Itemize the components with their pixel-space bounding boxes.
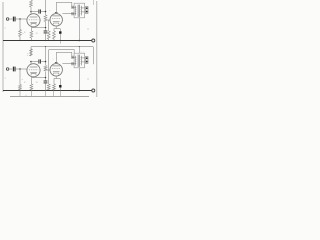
wire R4 to rail	[30, 38, 32, 41]
wire cathode tee lower	[54, 78, 61, 80]
wire input to C1	[9, 18, 13, 20]
wire V2 plate up	[55, 2, 57, 12]
transformer T1 case	[74, 3, 85, 18]
wire plate top run lower	[56, 51, 71, 53]
node B+ transformer junction	[79, 46, 80, 47]
wire plate to C2b	[31, 61, 38, 63]
resistor R6 cathode	[53, 31, 56, 39]
tube V1 envelope	[27, 14, 40, 27]
node cathode junction lower	[45, 77, 46, 78]
wire T2 secondary return	[78, 68, 80, 91]
capacitor C4 electrolytic	[59, 31, 61, 34]
tube V2 grid	[52, 17, 60, 19]
wire R5 to rail	[48, 39, 50, 41]
node rail2 J C3b	[45, 90, 46, 91]
wire C4b lead	[59, 79, 61, 85]
wire cathode bus lower	[31, 77, 45, 79]
node rail J C3	[45, 40, 46, 41]
svg-text:25: 25	[36, 82, 38, 84]
wire drop x53	[53, 91, 55, 97]
wire grid of V2	[46, 19, 50, 21]
node column junction lower	[45, 61, 47, 63]
tube V3 screen	[30, 71, 37, 73]
wire R1 to rail	[19, 37, 21, 41]
wire grid junction down lower	[19, 69, 21, 80]
wire B+ bus upper	[31, 47, 93, 65]
capacitor primary bottom marks b	[71, 62, 73, 65]
wire B+ corner	[30, 47, 32, 49]
wire stub below rail	[59, 41, 61, 44]
inductor T1 secondary	[80, 6, 83, 15]
tube V2 envelope	[50, 14, 62, 26]
wire ground rail lower	[3, 90, 92, 92]
wire V2 screen to primary	[62, 13, 76, 15]
wire V4 screen to primary	[62, 63, 76, 65]
inductor T2 primary	[74, 56, 77, 65]
wire B+ to T2 top	[78, 47, 80, 54]
node cathode junction	[45, 27, 46, 28]
resistor R6b cathode	[53, 84, 56, 90]
wire B+ bus lower	[49, 50, 74, 54]
node rail J R4	[31, 40, 32, 41]
wire C4b to rail	[59, 88, 61, 91]
node rail J R1	[19, 40, 20, 41]
wire drop x31	[30, 91, 32, 97]
tube V4 heater	[54, 73, 59, 74]
wire right border	[96, 1, 98, 97]
wire V3 cathode lead	[31, 76, 33, 79]
connector JK1 output	[86, 7, 89, 14]
node rail2 J R1b	[19, 90, 20, 91]
wire R3 to C3	[45, 22, 47, 31]
capacitor C2 coupling	[38, 9, 40, 13]
capacitor C3b bypass	[44, 80, 48, 82]
node output terminal b	[92, 89, 95, 92]
resistor R1 grid leak	[19, 30, 22, 37]
wire C3b to rail	[45, 83, 47, 90]
wire C1 to V1 grid	[16, 18, 28, 20]
wire column lower half	[45, 47, 47, 65]
capacitor C1b	[12, 67, 14, 72]
capacitor C2b coupling	[38, 59, 40, 63]
wire T1 secondary return	[78, 18, 80, 41]
wire R2 to plate	[30, 7, 32, 12]
wire secondary to jack top	[81, 7, 85, 9]
wire C1b to V3 grid	[16, 68, 28, 70]
wire R5 top	[48, 20, 50, 31]
transformer T2 case	[74, 53, 85, 68]
wire input to C1b	[9, 68, 13, 70]
wire V1 plate lead	[30, 12, 32, 15]
wire drop x60	[59, 91, 61, 97]
tube V2 heater	[54, 23, 59, 24]
node rail2 J R6b	[53, 90, 54, 91]
node J1 input terminal	[6, 18, 9, 21]
wire V2 cathode down	[55, 26, 57, 29]
tube V3 grid	[29, 69, 38, 71]
wire drop x20	[19, 91, 21, 97]
wire cathode bus	[31, 27, 45, 29]
node grid junction lower	[19, 68, 21, 70]
wire filament bus	[10, 96, 89, 98]
wire C2b to node	[41, 61, 45, 63]
node rail J C4	[60, 40, 61, 41]
wire drop x45	[45, 91, 47, 97]
tube V1 grid	[29, 19, 38, 21]
tube V4 envelope	[50, 64, 62, 76]
capacitor C4b electrolytic	[59, 85, 61, 88]
tube V1 screen	[30, 21, 37, 23]
tube V3 cathode	[31, 74, 36, 76]
wire V3 plate lead	[30, 62, 32, 65]
wire R6b lead	[53, 79, 55, 84]
wire cathode tee	[54, 28, 61, 30]
inductor T1 primary	[74, 6, 77, 15]
svg-text:25: 25	[36, 33, 38, 35]
wire C2 to node	[41, 11, 45, 13]
capacitor primary top marks b	[71, 56, 73, 59]
wire V4 plate up	[55, 52, 57, 62]
wire secondary to jack top b	[81, 57, 85, 59]
wire grid junction down	[19, 19, 21, 30]
tube V4 top cap	[55, 61, 58, 63]
capacitor primary top marks	[71, 6, 73, 9]
node grid junction	[19, 18, 21, 20]
wire secondary to jack bottom	[81, 11, 85, 13]
wire stub top right	[93, 0, 95, 5]
resistor R3	[44, 15, 47, 22]
node plate junction lower	[30, 61, 32, 63]
resistor R2b plate load lower	[30, 49, 33, 56]
wire plate top run	[56, 1, 71, 3]
capacitor C3 bypass	[44, 30, 48, 32]
wire R6 to rail	[53, 39, 55, 41]
resistor R3b	[44, 66, 47, 72]
node J2 input terminal	[6, 68, 9, 71]
wire V1 cathode lead	[31, 26, 33, 29]
resistor R1b grid leak	[19, 85, 22, 91]
wire V4 cathode down	[55, 76, 57, 79]
wire R4b top	[30, 78, 32, 84]
tube V4 cathode	[53, 70, 60, 72]
wire C3 to rail	[45, 33, 47, 40]
wire R5b column	[48, 50, 50, 84]
tube V1 plate	[30, 16, 38, 18]
resistor R5b	[47, 84, 50, 90]
node secondary rail junction b	[79, 90, 81, 92]
resistor R4b cathode	[30, 84, 33, 90]
node rail2 J R4b	[31, 90, 32, 91]
svg-text:c: c	[53, 58, 54, 60]
wire secondary to jack bottom b	[81, 61, 85, 63]
tube V2 top cap	[55, 11, 58, 13]
node secondary rail junction	[79, 40, 81, 42]
connector JK2 output	[86, 57, 89, 64]
node B+ column junction	[45, 46, 46, 47]
node output terminal	[92, 39, 95, 42]
wire column top	[45, 0, 47, 15]
wire R6 lead	[53, 29, 55, 31]
core T1	[77, 5, 79, 17]
wire plate drop lower	[71, 52, 73, 57]
capacitor C1	[12, 17, 14, 22]
tube V2 plate	[53, 15, 60, 17]
node plate junction	[30, 11, 32, 13]
resistor R2 plate load	[30, 0, 33, 7]
wire left border	[2, 2, 4, 92]
wire grid of V4	[46, 69, 50, 71]
tube V1 cathode	[31, 24, 36, 26]
wire R3b to C3b	[45, 72, 47, 81]
wire C4 to rail	[59, 34, 61, 41]
wire into primary	[72, 6, 76, 8]
tube V4 grid	[52, 67, 60, 69]
capacitor primary bottom marks	[71, 12, 73, 15]
wire plate drop	[71, 2, 73, 7]
tube V2 cathode	[53, 20, 60, 22]
wire into primary lower	[72, 56, 76, 58]
core T2	[77, 55, 79, 67]
node rail2 J C4b	[60, 90, 61, 91]
wire R4 top	[30, 28, 32, 31]
resistor R4 cathode	[30, 31, 33, 38]
wire ground rail	[3, 40, 92, 42]
wire C4 lead	[59, 29, 61, 32]
wire R1b down	[19, 80, 21, 85]
node rail J R6	[53, 40, 54, 41]
inductor T2 secondary	[80, 56, 83, 65]
wire plate to C2	[31, 11, 38, 13]
tube V3 envelope	[27, 64, 40, 77]
tube V4 plate	[53, 65, 60, 67]
node column junction	[45, 11, 47, 13]
svg-text:k: k	[27, 55, 28, 57]
tube V3 plate	[30, 66, 38, 68]
resistor R5	[47, 31, 50, 39]
